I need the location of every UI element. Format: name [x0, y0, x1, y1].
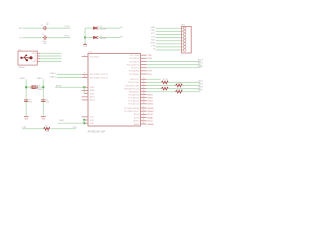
- svg-text:GND: GND: [90, 120, 95, 122]
- svg-text:18: 18: [143, 90, 145, 92]
- svg-text:PC1 (ADC1): PC1 (ADC1): [128, 96, 139, 99]
- svg-text:PD2 (INT0): PD2 (INT0): [129, 58, 139, 60]
- svg-text:GND: GND: [90, 123, 95, 125]
- IC1 body: [88, 53, 140, 126]
- pin AVCC: [82, 96, 88, 98]
- svg-text:AGND: AGND: [133, 120, 139, 123]
- svg-text:(SCK): (SCK): [148, 114, 154, 116]
- net labels for SV1 wires: [150, 27, 156, 51]
- svg-text:GND: GND: [90, 87, 95, 89]
- svg-text:D+: D+: [34, 58, 36, 60]
- junction at lower GND wire: [83, 122, 85, 124]
- wire net LED2: [182, 85, 201, 87]
- svg-text:LED2: LED2: [198, 84, 203, 86]
- capacitor C3: [24, 100, 28, 102]
- svg-text:MOSI: MOSI: [198, 87, 203, 89]
- svg-text:PB7 (XTAL2/TOSC2): PB7 (XTAL2/TOSC2): [90, 76, 108, 79]
- pin row 64.6 wire: [140, 64, 146, 66]
- pin GND lower 1: [84, 119, 88, 121]
- svg-text:(RST): (RST): [148, 94, 153, 96]
- junction at GND pin: [83, 86, 85, 88]
- svg-text:CTS#: CTS#: [65, 26, 71, 28]
- wire net TXD (top-left wire B): [23, 37, 70, 39]
- svg-text:ADC6: ADC6: [90, 99, 95, 102]
- svg-text:8MHz: 8MHz: [38, 89, 43, 91]
- X1 pin D+: [37, 58, 40, 60]
- IC1 pin 16 PB2 (SS/OC1B): [140, 85, 146, 87]
- svg-text:PB2 (SS/OC1B): PB2 (SS/OC1B): [125, 85, 139, 87]
- svg-text:R10 1K: R10 1K: [177, 89, 184, 91]
- IC1 pin 19 ADC6: [140, 113, 146, 115]
- resistor R7 1K: [161, 81, 168, 84]
- reset wire: [22, 128, 44, 130]
- svg-text:CTS#: CTS#: [150, 30, 156, 32]
- svg-text:PD7 (AIN1): PD7 (AIN1): [129, 73, 139, 76]
- svg-text:RTS#: RTS#: [150, 43, 156, 45]
- capacitor C1: [43, 26, 47, 30]
- IC1 pin 23 PC0 (ADC0): [140, 94, 146, 96]
- pin ADC6: [82, 99, 88, 101]
- svg-text:(INT0): (INT0): [148, 104, 154, 106]
- svg-text:PB3 (MOSI/OC2): PB3 (MOSI/OC2): [124, 88, 139, 90]
- svg-text:28: 28: [143, 110, 145, 112]
- svg-text:AREF: AREF: [90, 89, 96, 92]
- wire from D+: [40, 58, 61, 60]
- svg-text:1N4148: 1N4148: [100, 38, 107, 40]
- wire net XTAL1 vertical: [25, 79, 27, 116]
- pin 10 PB7 XTAL2: [82, 77, 88, 79]
- wire net AGND: [55, 86, 84, 88]
- svg-text:PB0 (ICP): PB0 (ICP): [130, 79, 139, 81]
- capacitor C4: [41, 100, 45, 102]
- wire net MOSI: [168, 88, 201, 90]
- svg-text:14: 14: [143, 78, 145, 80]
- IC1 pin 25 PC2 (ADC2): [140, 100, 146, 102]
- wire to R8: [147, 85, 176, 87]
- ground symbol under C4: [41, 116, 46, 118]
- svg-text:22: 22: [143, 116, 145, 118]
- pin GND lower 2: [84, 122, 88, 124]
- IC1 pin 15 PB1 (OC1A): [140, 81, 146, 83]
- svg-text:10: 10: [84, 76, 86, 78]
- wire SV1 pin7: [156, 46, 183, 48]
- svg-text:PD4 (XCK/T0): PD4 (XCK/T0): [127, 64, 139, 66]
- svg-text:ADC4: ADC4: [198, 59, 203, 62]
- diode D2: [94, 36, 99, 39]
- svg-text:ADC5: ADC5: [198, 62, 203, 65]
- svg-text:AVCC: AVCC: [90, 96, 96, 99]
- SV1 pin pads: [183, 27, 186, 51]
- svg-text:PC3 (ADC3): PC3 (ADC3): [128, 103, 139, 106]
- svg-text:AGND: AGND: [56, 85, 63, 88]
- resistor R10 1K: [176, 90, 183, 93]
- junction on +5V rail: [84, 36, 86, 38]
- crystal Q1: [31, 86, 37, 89]
- resistor R1: [44, 127, 50, 130]
- IC1 pin 28 PC5 (ADC5/SCL): [140, 110, 146, 112]
- svg-text:23: 23: [143, 93, 145, 95]
- svg-text:C10: C10: [44, 126, 47, 128]
- wire net RXD (top-left wire A): [23, 27, 70, 29]
- svg-text:VBUS: VBUS: [32, 53, 38, 55]
- ground symbol under C3: [24, 116, 29, 118]
- svg-text:PC5 (ADC5/SCL): PC5 (ADC5/SCL): [124, 110, 139, 113]
- svg-text:ADC7: ADC7: [134, 116, 139, 119]
- IC1 pin 14 PB0 (ICP): [140, 78, 146, 80]
- wire net LED1: [168, 81, 201, 83]
- svg-text:20: 20: [143, 122, 145, 124]
- svg-text:ADC6: ADC6: [134, 113, 139, 116]
- svg-text:27: 27: [143, 106, 145, 108]
- wire net XTAL2 vertical: [42, 79, 44, 116]
- svg-text:26: 26: [143, 102, 145, 104]
- svg-text:PC4 (ADC4/SDA): PC4 (ADC4/SDA): [124, 107, 139, 110]
- svg-text:XTAL2: XTAL2: [49, 75, 56, 78]
- svg-text:PB6 (XTAL1/TOSC1): PB6 (XTAL1/TOSC1): [90, 73, 108, 76]
- svg-text:22p: 22p: [46, 102, 49, 104]
- svg-text:(TXD): (TXD): [148, 101, 153, 103]
- connector SV1 box: [182, 26, 192, 53]
- svg-text:GND: GND: [90, 93, 95, 95]
- wire SV1 pin3: [156, 34, 183, 36]
- wire to R10: [147, 91, 176, 93]
- junction at lower GND pin: [83, 119, 85, 121]
- pin row 58.3 red label: [140, 57, 146, 59]
- pin AGND: [84, 93, 88, 95]
- supply +5V rail vertical wire: [84, 28, 86, 43]
- svg-text:TXD: TXD: [151, 36, 156, 38]
- IC1 pin 22 ADC7: [140, 117, 146, 119]
- pin row 74 red label: [140, 73, 146, 75]
- svg-text:R8 1K: R8 1K: [177, 83, 183, 85]
- svg-text:PD5 (T1): PD5 (T1): [131, 68, 139, 70]
- svg-text:DTR: DTR: [22, 127, 27, 129]
- svg-text:100n: 100n: [45, 131, 49, 133]
- svg-text:PB4 (MISO): PB4 (MISO): [129, 92, 140, 94]
- junction left of crystal: [25, 86, 27, 88]
- wire to R9: [147, 88, 162, 90]
- pin row 70.8 red label: [140, 70, 146, 72]
- IC1 pin 21 AGND: [140, 120, 146, 122]
- wire SV1 pin4: [156, 37, 183, 39]
- connector SV1 wires: [156, 28, 183, 50]
- svg-text:(MOSI): (MOSI): [148, 108, 154, 110]
- svg-text:(AREF): (AREF): [148, 123, 155, 126]
- wire from D2 to node: [99, 37, 121, 39]
- svg-text:21: 21: [143, 119, 145, 121]
- svg-text:XTAL2: XTAL2: [36, 77, 43, 80]
- svg-text:22p: 22p: [29, 102, 32, 104]
- svg-text:DTR: DTR: [148, 71, 153, 73]
- svg-text:(RXD): (RXD): [148, 97, 154, 99]
- wire from D1 to node: [99, 27, 121, 29]
- IC1 pin 26 PC3 (ADC3): [140, 103, 146, 105]
- wire from D-: [40, 55, 61, 57]
- svg-text:RXD: RXD: [148, 58, 153, 60]
- pin row 67.7 wire: [140, 67, 146, 69]
- svg-text:(SCL): (SCL): [148, 121, 153, 123]
- wire SV1 pin5: [156, 40, 183, 42]
- wire net XTAL1 to pin 9: [57, 73, 82, 75]
- svg-text:19: 19: [143, 113, 145, 115]
- wire net MISO: [182, 91, 201, 93]
- IC1 pin 17 PB3 (MOSI/OC2): [140, 88, 146, 90]
- pin row 61.5 wire: [140, 61, 146, 63]
- wire crystal horizontal: [26, 86, 43, 88]
- supply symbol +5V: [83, 44, 86, 45]
- svg-text:LED1: LED1: [198, 80, 203, 82]
- svg-text:15: 15: [143, 81, 145, 83]
- svg-text:VCC: VCC: [90, 117, 95, 119]
- pin GND (AGND wire): [82, 86, 88, 88]
- IC1 pin 24 PC1 (ADC1): [140, 97, 146, 99]
- svg-text:GND: GND: [33, 61, 38, 63]
- svg-text:TXD: TXD: [148, 55, 153, 57]
- wire net XTAL2 to pin 10: [57, 77, 82, 79]
- svg-text:ATMEGA8-16P: ATMEGA8-16P: [88, 130, 106, 134]
- X1 pin VBUS: [37, 52, 40, 54]
- svg-text:RTS: RTS: [148, 74, 153, 76]
- capacitor C2: [43, 36, 47, 40]
- svg-text:1N4148: 1N4148: [100, 29, 107, 31]
- svg-text:XTAL1: XTAL1: [19, 77, 26, 80]
- wire SV1 pin8: [156, 49, 183, 51]
- svg-text:PD3 (INT1): PD3 (INT1): [129, 61, 139, 63]
- pin AREF: [82, 89, 88, 91]
- svg-text:PD6 (AIN0): PD6 (AIN0): [129, 70, 139, 73]
- svg-text:2: 2: [84, 55, 85, 57]
- pin 2 PD0(RXD): [82, 56, 88, 58]
- wire net SS: [147, 78, 161, 80]
- svg-text:16: 16: [143, 84, 145, 86]
- svg-text:9: 9: [84, 73, 85, 75]
- X1 pin GND: [37, 60, 40, 62]
- svg-text:USB-B: USB-B: [18, 67, 25, 69]
- svg-text:0n: 0n: [46, 24, 48, 26]
- svg-text:25: 25: [143, 99, 145, 101]
- connector X1 USB box: [18, 51, 37, 65]
- svg-text:(SDA): (SDA): [148, 116, 154, 119]
- svg-text:GND: GND: [151, 27, 156, 29]
- wire from GND: [40, 60, 61, 62]
- svg-text:RXD: RXD: [151, 39, 156, 41]
- wire vertical GND tie: [83, 87, 85, 93]
- wire to diode D1: [85, 27, 93, 29]
- svg-text:RTS#: RTS#: [65, 36, 71, 38]
- wire to R7: [147, 81, 162, 83]
- IC1 pin 20 AREF: [140, 123, 146, 125]
- svg-text:Q1: Q1: [38, 85, 40, 87]
- svg-text:DTR: DTR: [151, 46, 156, 48]
- svg-text:AREF: AREF: [198, 65, 204, 68]
- svg-text:PD1 (TXD): PD1 (TXD): [130, 55, 140, 57]
- svg-text:MISO: MISO: [198, 90, 203, 92]
- resistor R8 1K: [176, 84, 183, 87]
- junction right of crystal: [42, 86, 44, 88]
- wire to diode D2: [85, 37, 93, 39]
- svg-text:24: 24: [143, 96, 145, 98]
- IC1 pin 27 PC4 (ADC4/SDA): [140, 107, 146, 109]
- svg-text:PD0 (RXD): PD0 (RXD): [90, 56, 100, 58]
- svg-text:R7 1K: R7 1K: [163, 79, 169, 81]
- diode D1: [94, 27, 99, 30]
- wire from VBUS: [40, 52, 61, 54]
- USB trident symbol: [21, 55, 33, 61]
- wire SV1 pin2: [156, 30, 183, 32]
- svg-text:PB1 (OC1A): PB1 (OC1A): [128, 81, 139, 84]
- svg-text:VCC: VCC: [151, 33, 156, 35]
- wire SV1 pin6: [156, 43, 183, 45]
- svg-text:GND: GND: [59, 120, 64, 122]
- svg-text:PC0 (ADC0): PC0 (ADC0): [128, 93, 139, 96]
- X1 pin D-: [37, 55, 40, 57]
- wire net GND to pin: [58, 122, 85, 124]
- IC1 pin 18 PB4 (MISO): [140, 91, 146, 93]
- wire SV1 pin1: [156, 27, 183, 29]
- pin VCC: [82, 116, 88, 118]
- pin 9 PB6 XTAL1: [82, 73, 88, 75]
- svg-text:AREF: AREF: [134, 123, 140, 126]
- svg-text:17: 17: [143, 87, 145, 89]
- svg-text:PC2 (ADC2): PC2 (ADC2): [128, 100, 139, 103]
- resistor R9 1K: [161, 87, 168, 90]
- pin row 55.2 red label: [140, 54, 146, 56]
- svg-text:XTAL1: XTAL1: [49, 72, 56, 75]
- wire vertical lower GND tie: [83, 120, 85, 123]
- svg-text:(MISO): (MISO): [148, 111, 154, 113]
